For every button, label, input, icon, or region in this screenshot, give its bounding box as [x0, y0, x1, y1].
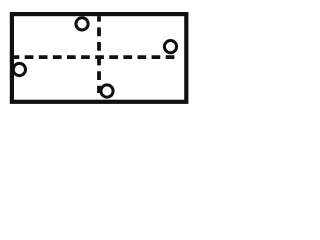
- node circle left: [13, 63, 25, 75]
- node circle right: [164, 41, 176, 53]
- outer rectangle border: [12, 14, 186, 102]
- node circle top: [76, 18, 88, 30]
- horizontal dashed line: [11, 55, 176, 59]
- vertical dashed line: [97, 16, 101, 93]
- node circle bottom: [101, 85, 113, 97]
